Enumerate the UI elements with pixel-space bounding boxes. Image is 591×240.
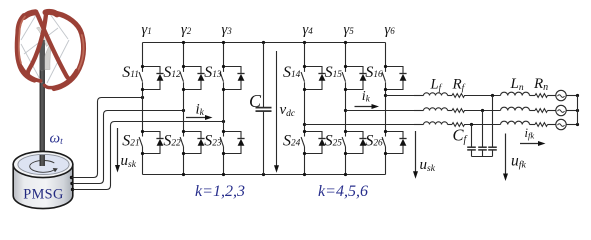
- node: DC- rail junction x=223.5: [222, 173, 225, 176]
- svg-text:ifk: ifk: [525, 126, 535, 141]
- svg-text:k=1,2,3: k=1,2,3: [195, 183, 245, 200]
- voltage arrow u_fk: [505, 134, 507, 175]
- svg-text:S14: S14: [283, 64, 301, 81]
- node: PMSG terminal a: [70, 176, 73, 179]
- IGBT switch S21 with antiparallel diode: [139, 130, 164, 155]
- svg-text:PMSG: PMSG: [23, 187, 64, 203]
- wire: converter leg at x=223.5 (leg3): [223, 43, 225, 175]
- wire: inverter phase row1: [386, 95, 415, 97]
- node: Cf tap: [491, 94, 494, 97]
- node: DC- rail junction x=304.5: [303, 173, 306, 176]
- node A: phase a / leg1 junction: [141, 96, 144, 99]
- wire: positive DC rail: [143, 42, 386, 44]
- node: DC+ rail junction x=263.5: [262, 41, 265, 44]
- node: DC+ rail junction x=345.5: [344, 41, 347, 44]
- svg-text:γ6: γ6: [385, 22, 396, 38]
- IGBT switch S15 with antiparallel diode: [342, 65, 367, 91]
- rotation arrow on PMSG top: [30, 160, 55, 172]
- capacitor Cf phase 3: [467, 125, 476, 157]
- node: PMSG terminal c: [71, 188, 74, 191]
- IGBT switch S23 with antiparallel diode: [220, 130, 245, 155]
- node: Cf tap: [470, 123, 473, 126]
- resistor Rf zigzag: [452, 123, 465, 127]
- svg-text:γ5: γ5: [344, 22, 355, 38]
- inductor Ln coil: [501, 121, 530, 124]
- node: DC+ rail junction x=183.5: [182, 41, 185, 44]
- wire: converter leg at x=142.5 (leg1): [142, 43, 144, 175]
- svg-text:Cf: Cf: [453, 126, 468, 146]
- resistor Rf zigzag: [452, 109, 465, 113]
- voltage arrow u_sk (machine side): [117, 128, 119, 166]
- wire: converter leg at x=345.5 (leg5): [345, 43, 347, 175]
- AC grid source: [556, 119, 566, 129]
- svg-text:vdc: vdc: [280, 102, 296, 119]
- node C: phase c / leg3 junction: [222, 120, 225, 123]
- node: leg5 / row2 junction: [344, 109, 347, 112]
- wire to Cf tap and Ln: [464, 110, 501, 112]
- node: DC- rail junction x=183.5: [182, 173, 185, 176]
- wire: phase a to leg 1: [72, 98, 143, 178]
- svg-text:γ1: γ1: [142, 22, 152, 38]
- current arrow i_fk: [520, 143, 540, 145]
- svg-text:Rf: Rf: [452, 77, 466, 94]
- resistor Rn zigzag: [535, 109, 547, 113]
- svg-text:S16: S16: [365, 64, 383, 81]
- svg-text:S26: S26: [365, 132, 383, 149]
- AC grid source: [556, 105, 566, 115]
- svg-text:ufk: ufk: [511, 153, 526, 171]
- resistor Rn zigzag: [535, 94, 547, 98]
- wire to Cf tap and Ln: [464, 95, 501, 97]
- wind turbine pole top: [40, 40, 45, 70]
- voltage arrow u_sk (converter side): [415, 131, 417, 172]
- IGBT switch S12 with antiparallel diode: [180, 65, 205, 91]
- inductor Lf coil: [424, 93, 448, 96]
- wind turbine struts: [21, 14, 69, 83]
- resistor Rn zigzag: [535, 123, 547, 127]
- svg-text:S22: S22: [163, 132, 181, 149]
- svg-text:S15: S15: [325, 64, 343, 81]
- wire: inverter phase row3: [305, 124, 415, 126]
- svg-text:S24: S24: [283, 132, 301, 149]
- svg-text:Lf: Lf: [430, 77, 443, 94]
- node: DC- rail junction x=263.5: [262, 173, 265, 176]
- wind turbine mast/pole: [40, 40, 45, 167]
- wire: phase b to leg 2: [72, 111, 184, 184]
- wire: grid bus vertical: [577, 96, 579, 125]
- svg-text:S25: S25: [325, 132, 343, 149]
- wire: converter leg at x=304.5 (leg4): [304, 43, 306, 175]
- current arrow i_k (machine side): [186, 117, 206, 119]
- node B: phase b / leg2 junction: [182, 109, 185, 112]
- svg-text:usk: usk: [121, 153, 137, 170]
- current arrow i_k (grid side): [355, 106, 374, 108]
- inductor Ln coil: [501, 107, 530, 110]
- capacitor Cf phase 2: [478, 111, 487, 157]
- wire: negative DC rail: [143, 174, 386, 176]
- resistor Rf zigzag: [452, 94, 465, 98]
- wire: Cf common bar: [472, 156, 493, 158]
- wire: converter leg at x=385.5 (leg6): [385, 43, 387, 175]
- wire: converter leg at x=183.5 (leg2): [183, 43, 185, 175]
- inductor Lf coil: [424, 122, 448, 125]
- IGBT switch S13 with antiparallel diode: [220, 65, 245, 91]
- node: DC+ rail junction x=223.5: [222, 41, 225, 44]
- svg-text:ik: ik: [362, 89, 371, 104]
- svg-text:S11: S11: [122, 64, 139, 81]
- capacitor Cf phase 1: [488, 96, 497, 157]
- svg-text:ik: ik: [196, 102, 205, 119]
- node: DC- rail junction x=345.5: [344, 173, 347, 176]
- svg-text:S23: S23: [204, 132, 222, 149]
- AC grid source: [556, 90, 566, 100]
- IGBT switch S25 with antiparallel diode: [342, 130, 367, 155]
- svg-text:k=4,5,6: k=4,5,6: [318, 183, 368, 200]
- inductor Ln coil: [501, 92, 530, 95]
- IGBT switch S16 with antiparallel diode: [382, 65, 407, 91]
- wire: filter phase line y=124.5: [414, 124, 424, 126]
- IGBT switch S22 with antiparallel diode: [180, 130, 205, 155]
- IGBT switch S11 with antiparallel diode: [139, 65, 164, 91]
- svg-text:S21: S21: [122, 132, 139, 149]
- node: leg6 / row1 junction: [384, 94, 387, 97]
- svg-text:Rn: Rn: [533, 76, 548, 93]
- svg-text:γ4: γ4: [303, 22, 314, 38]
- svg-text:Ln: Ln: [510, 76, 524, 93]
- wind turbine inner white vanes: [37, 27, 50, 47]
- wire: filter phase line y=95.5: [414, 95, 424, 97]
- wire: phase c to leg 3: [73, 122, 224, 190]
- wire: inverter phase row2: [346, 110, 415, 112]
- PMSG top face: [13, 151, 73, 177]
- capacitor C (DC link): [263, 43, 265, 108]
- svg-text:S12: S12: [163, 64, 181, 81]
- node: DC+ rail junction x=304.5: [303, 41, 306, 44]
- svg-text:S13: S13: [204, 64, 222, 81]
- svg-text:C: C: [249, 91, 262, 111]
- node: Cf tap: [481, 109, 484, 112]
- IGBT switch S14 with antiparallel diode: [301, 65, 326, 91]
- svg-text:usk: usk: [420, 157, 436, 174]
- svg-text:γ3: γ3: [222, 22, 233, 38]
- node: PMSG terminal b: [70, 182, 73, 185]
- svg-text:γ2: γ2: [181, 22, 192, 38]
- wind turbine blades (two-loop vertical-axis rotor): [17, 12, 83, 89]
- node: grid bus junction: [576, 109, 579, 112]
- IGBT switch S24 with antiparallel diode: [301, 130, 326, 155]
- IGBT switch S26 with antiparallel diode: [382, 130, 407, 155]
- voltage arrow v_dc: [276, 51, 278, 166]
- node: grid bus junction: [576, 94, 579, 97]
- svg-text:ωt: ωt: [50, 130, 64, 147]
- pole into PMSG: [40, 155, 45, 166]
- inductor Lf coil: [424, 108, 448, 111]
- node: leg4 / row3 junction: [303, 123, 306, 126]
- node: grid bus junction: [576, 123, 579, 126]
- wire: filter phase line y=110.5: [414, 110, 424, 112]
- wire to Cf tap and Ln: [464, 124, 501, 126]
